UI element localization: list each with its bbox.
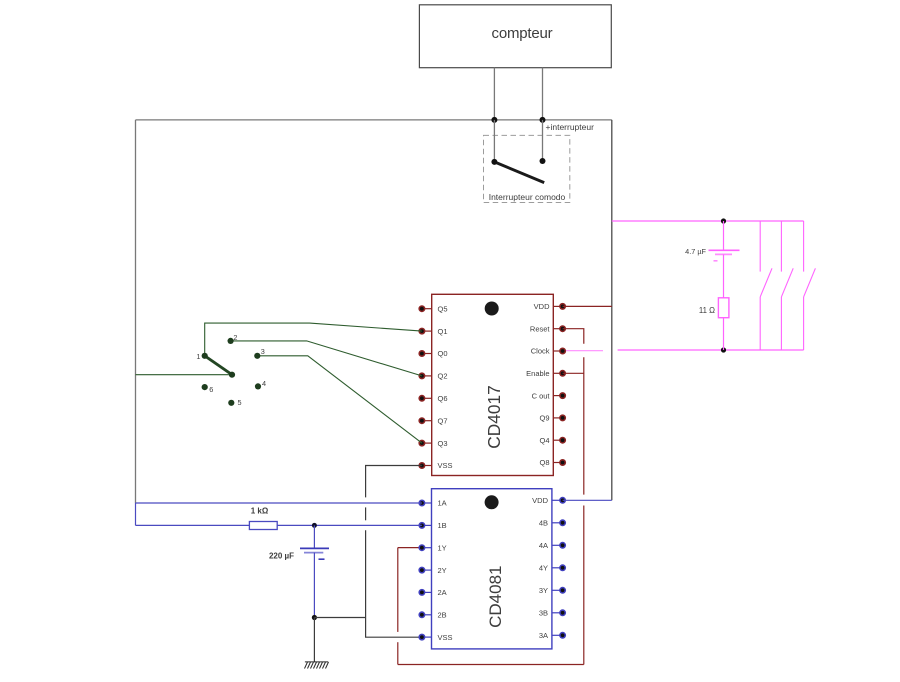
- svg-text:3Y: 3Y: [539, 586, 548, 595]
- pin Q0: [419, 349, 447, 358]
- svg-text:4Y: 4Y: [539, 564, 548, 573]
- svg-text:6: 6: [209, 385, 213, 394]
- switch SW4 pink: [804, 221, 816, 350]
- pin 2Y: [419, 566, 446, 575]
- battery BT1 4.7 uF: [709, 221, 740, 298]
- wire into switch right: [542, 120, 544, 161]
- wire VDD U1 to right rail: [563, 305, 612, 307]
- switch SW3 pink: [781, 221, 793, 350]
- svg-text:2B: 2B: [438, 611, 447, 620]
- resistor R1 1 kohm: [249, 522, 277, 530]
- svg-text:2Y: 2Y: [438, 566, 447, 575]
- svg-text:Interrupteur comodo: Interrupteur comodo: [489, 192, 566, 202]
- pin VSS U2: [419, 633, 452, 642]
- wire pos1 to Q1: [205, 323, 422, 356]
- pin VDD U2: [532, 496, 565, 505]
- switch SW2 pink: [760, 221, 772, 350]
- pin Q1: [419, 327, 447, 336]
- wire Enable stub: [563, 372, 584, 374]
- wire rotary common: [136, 374, 233, 376]
- wire red to 1Y: [398, 547, 422, 549]
- switch rotary blade: [205, 356, 232, 375]
- pin 3A: [539, 631, 565, 640]
- pin 2A: [419, 588, 446, 597]
- pin Q7: [419, 416, 447, 425]
- svg-text:Q8: Q8: [539, 458, 549, 467]
- svg-text:5: 5: [238, 398, 242, 407]
- svg-text:2: 2: [233, 333, 237, 342]
- svg-text:Q3: Q3: [438, 439, 448, 448]
- node rotary pos6: [202, 384, 208, 390]
- node rotary pos4: [255, 383, 261, 389]
- wire compteur left lead: [493, 68, 495, 120]
- wire pink bottom rail: [618, 349, 804, 351]
- svg-text:VDD: VDD: [532, 496, 548, 505]
- switch blade: [494, 162, 544, 183]
- svg-text:4.7 µF: 4.7 µF: [685, 247, 706, 256]
- pin VSS U1: [419, 461, 452, 470]
- pin Q6: [419, 394, 447, 403]
- svg-text:2A: 2A: [438, 588, 447, 597]
- node rotary pos5: [228, 400, 234, 406]
- wire left blue vertical: [135, 503, 137, 525]
- svg-text:Q4: Q4: [539, 436, 549, 445]
- node rotary pos2: [228, 338, 234, 344]
- wire Reset net: [563, 329, 584, 344]
- switch fixed contact: [540, 158, 546, 164]
- pin 2B: [419, 611, 446, 620]
- node rotary common: [229, 372, 235, 378]
- svg-text:4B: 4B: [539, 519, 548, 528]
- wire left rail: [135, 120, 137, 503]
- wire clock net pink: [563, 350, 603, 352]
- switch S1 Interrupteur comodo box: [484, 135, 570, 202]
- svg-text:220 µF: 220 µF: [269, 552, 294, 561]
- node rotary pos3: [254, 353, 260, 359]
- op-amp U2 CD4081 body: [432, 489, 552, 649]
- pin 3Y: [539, 586, 565, 595]
- svg-text:3: 3: [261, 347, 265, 356]
- svg-text:Q5: Q5: [438, 304, 448, 313]
- svg-text:Q0: Q0: [438, 349, 448, 358]
- svg-text:3A: 3A: [539, 631, 548, 640]
- ground: [305, 662, 329, 669]
- compteur block: [419, 5, 611, 68]
- svg-text:11 Ω: 11 Ω: [699, 306, 715, 315]
- wire 1B right of resistor: [277, 524, 422, 526]
- wire right rail: [611, 120, 613, 500]
- pin 4Y: [539, 564, 565, 573]
- pin C out: [532, 391, 566, 400]
- capacitor C1 220 uF: [300, 525, 329, 617]
- pin 1A: [419, 499, 446, 508]
- switch pivot contact: [491, 159, 497, 165]
- svg-text:3B: 3B: [539, 609, 548, 618]
- wire VSS vertical lower segment: [366, 530, 422, 637]
- wire pos3 to Q3: [257, 356, 422, 443]
- junction pink bottom: [721, 347, 726, 352]
- svg-text:4: 4: [262, 379, 266, 388]
- wire ground stem: [313, 618, 315, 662]
- svg-text:4A: 4A: [539, 541, 548, 550]
- junction capacitor tap: [312, 523, 317, 528]
- node rotary pos1: [202, 353, 208, 359]
- svg-text:Clock: Clock: [531, 347, 550, 356]
- junction right compteur: [540, 117, 546, 123]
- wire compteur right lead: [542, 68, 544, 120]
- pin Reset: [530, 324, 565, 333]
- wire top rail: [136, 119, 612, 121]
- pin Q2: [419, 372, 447, 381]
- svg-text:Q6: Q6: [438, 394, 448, 403]
- svg-text:C out: C out: [532, 391, 551, 400]
- wire pos2 to Q2: [231, 341, 422, 376]
- pin Clock: [531, 347, 566, 356]
- wire red vertical lower segment: [583, 506, 585, 665]
- svg-text:CD4081: CD4081: [486, 566, 505, 628]
- wire VSS U1 net: [366, 466, 422, 498]
- svg-text:VSS: VSS: [438, 461, 453, 470]
- wire red left vertical lower: [397, 642, 399, 664]
- pin 4B: [539, 519, 565, 528]
- wire ground tie: [314, 617, 365, 619]
- svg-text:CD4017: CD4017: [484, 385, 504, 448]
- wire 1B left of resistor: [136, 524, 250, 526]
- svg-text:1B: 1B: [438, 521, 447, 530]
- svg-text:compteur: compteur: [492, 25, 553, 42]
- wire 1A net blue: [136, 502, 422, 504]
- junction left compteur: [491, 117, 497, 123]
- junction pink top: [721, 218, 726, 223]
- pin Q5: [419, 304, 447, 313]
- wire red left vertical upper: [397, 548, 399, 632]
- svg-text:1Y: 1Y: [438, 543, 447, 552]
- svg-text:+interrupteur: +interrupteur: [546, 122, 595, 132]
- wire VDD U2 to right rail: [563, 499, 612, 501]
- junction ground tap: [312, 615, 317, 620]
- svg-text:VSS: VSS: [438, 633, 453, 642]
- pin 4A: [539, 541, 565, 550]
- svg-text:Reset: Reset: [530, 324, 551, 333]
- svg-text:1A: 1A: [438, 499, 447, 508]
- svg-text:Q9: Q9: [539, 414, 549, 423]
- pin 1Y: [419, 543, 446, 552]
- wire pink top rail: [612, 220, 804, 222]
- pin Q8: [539, 458, 565, 467]
- pin Q4: [539, 436, 565, 445]
- svg-text:Enable: Enable: [526, 369, 549, 378]
- pin Q9: [539, 414, 565, 423]
- wire VSS vertical mid segment: [365, 507, 367, 520]
- pin Enable: [526, 369, 565, 378]
- svg-text:Q2: Q2: [438, 372, 448, 381]
- pin 1B: [419, 521, 446, 530]
- wire resistor bottom lead: [723, 318, 725, 350]
- resistor R2 11 ohm: [718, 298, 729, 318]
- svg-text:1 kΩ: 1 kΩ: [251, 506, 269, 515]
- pin Q3: [419, 439, 447, 448]
- svg-text:Q7: Q7: [438, 416, 448, 425]
- svg-text:Q1: Q1: [438, 327, 448, 336]
- wire into switch left: [493, 120, 495, 162]
- pin VDD U1: [534, 302, 566, 311]
- svg-text:VDD: VDD: [534, 302, 550, 311]
- wire red bottom run: [398, 664, 584, 666]
- wire Reset-Enable vertical segment: [583, 357, 585, 494]
- pin 3B: [539, 609, 565, 618]
- svg-text:1: 1: [196, 352, 200, 361]
- op-amp U1 CD4017 body: [432, 294, 554, 475]
